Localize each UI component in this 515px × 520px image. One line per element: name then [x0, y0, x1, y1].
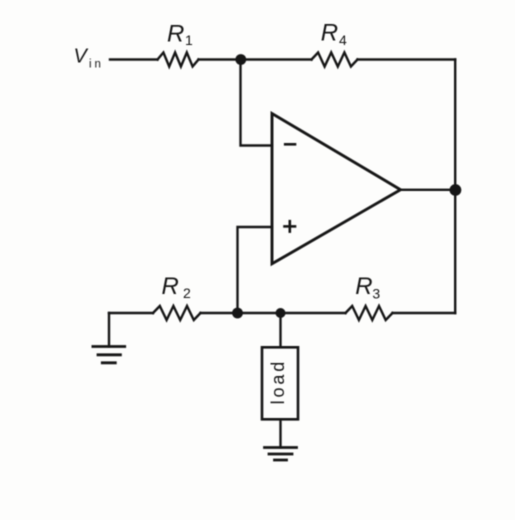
svg-text:R: R: [355, 273, 372, 300]
node B junction dot: [232, 308, 243, 319]
resistor R3: [346, 273, 393, 320]
wire ground to R2: [109, 312, 153, 314]
svg-text:in: in: [89, 58, 104, 70]
label Vin: [74, 45, 104, 70]
svg-text:load: load: [268, 359, 288, 405]
ground left: [93, 313, 125, 363]
svg-text:1: 1: [185, 32, 193, 48]
wire Vin to R1: [110, 58, 158, 60]
wire R1 to node A and to R4: [199, 58, 312, 60]
svg-text:4: 4: [339, 32, 347, 48]
node A junction dot: [235, 54, 246, 65]
svg-text:R: R: [167, 21, 184, 48]
svg-text:R: R: [321, 20, 338, 47]
wire op-amp output: [401, 189, 456, 191]
wire node A down to inverting input: [241, 60, 273, 146]
pin plus: [285, 221, 296, 231]
pin minus: [285, 143, 295, 146]
ground load: [265, 448, 297, 461]
wire R2 to node B and node C: [201, 312, 346, 314]
op-amp U1: [272, 114, 401, 264]
wire right rail vertical: [454, 60, 456, 314]
node C junction dot: [276, 308, 286, 318]
wire node C to load: [279, 313, 281, 347]
resistor R1: [158, 21, 199, 67]
wire non-inverting input from node B: [238, 227, 273, 313]
wire R3 to right rail: [393, 312, 456, 314]
resistor R4: [312, 20, 358, 67]
svg-text:R: R: [162, 273, 179, 300]
node output junction dot: [450, 184, 462, 196]
wire R4 to right rail: [358, 58, 456, 60]
wire load to ground: [279, 419, 281, 447]
svg-text:V: V: [74, 45, 89, 67]
svg-text:3: 3: [372, 285, 380, 301]
resistor R2: [153, 273, 201, 320]
svg-text:2: 2: [183, 285, 191, 301]
load box: [262, 347, 298, 419]
